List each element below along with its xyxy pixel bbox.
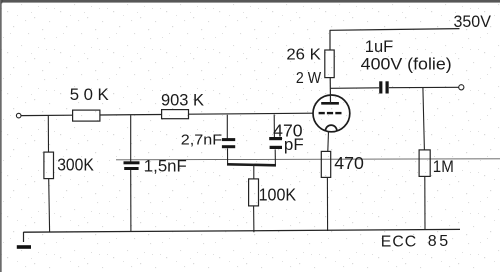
crease line across page [116,159,500,160]
wire 1,5nF to ground bus [130,170,132,232]
bracket wire joining cap bottoms [227,164,276,165]
cathode lead down [327,131,330,151]
wire node to 1M [423,88,425,151]
resistor 26K [325,50,334,78]
capacitor 2,7nF bottom plate [222,145,235,148]
wire 300K to ground bus [48,179,51,233]
svg-text:350V: 350V [454,12,492,31]
svg-text:400V (folie): 400V (folie) [361,55,452,73]
wire 470 to ground bus [326,178,328,232]
svg-text:pF: pF [284,135,304,154]
350V supply line [330,29,460,31]
capacitor 1,5nF top plate [124,161,140,164]
resistor 470 [321,151,330,177]
wire node to 2,7nF [226,115,228,139]
wire 100K to ground bus [253,206,255,232]
svg-text:100K: 100K [259,185,297,205]
svg-text:1uF: 1uF [365,38,393,56]
svg-text:903 K: 903 K [161,91,204,110]
resistor 100K [249,179,259,206]
wire 50K to 903K [100,114,162,117]
resistor 50K [73,110,100,121]
ground bus [23,229,460,232]
wire bracket to 100K [253,165,255,179]
resistor 1M [419,150,430,177]
svg-text:1,5nF: 1,5nF [144,157,187,175]
output terminal [459,85,464,90]
ground drop [23,232,25,242]
wire 1M to ground bus [424,177,426,231]
wire 26K to 350V line [329,30,331,50]
capacitor 1,5nF bottom plate [124,167,138,170]
wire 2,7nF to bracket [227,148,229,164]
resistor 300K [44,152,54,179]
svg-text:2,7nF: 2,7nF [181,132,222,148]
triode envelope V1 [313,95,350,132]
capacitor 1uF left plate [379,81,382,93]
wire node to 470pF [273,115,275,138]
svg-text:26 K: 26 K [286,47,321,64]
output line right part [389,86,459,88]
svg-text:470: 470 [334,153,364,173]
cathode arc [325,125,337,131]
svg-text:85: 85 [428,233,451,250]
input terminal [16,113,21,118]
anode plate [321,102,339,105]
wire 470pF to bracket [274,149,276,164]
wire node to 1,5nF [130,115,132,161]
grid dashes [319,112,342,114]
capacitor 470pF bottom plate [270,146,282,149]
resistor 903K [162,110,189,119]
svg-text:50K: 50K [70,85,113,104]
svg-text:2 W: 2 W [296,70,321,87]
wire 903K to grid [189,113,314,114]
anode lead up [329,78,331,104]
wire input to 50K [21,114,72,116]
capacitor 1uF right plate [386,81,389,93]
anode output line left part [331,87,379,90]
svg-text:1M: 1M [433,158,454,176]
svg-text:300K: 300K [57,154,94,174]
capacitor 470pF top plate [269,137,282,140]
ground symbol bar [17,245,31,249]
svg-text:ECC: ECC [381,233,417,250]
wire node to 300K [47,115,49,152]
capacitor 2,7nF top plate [222,138,235,141]
